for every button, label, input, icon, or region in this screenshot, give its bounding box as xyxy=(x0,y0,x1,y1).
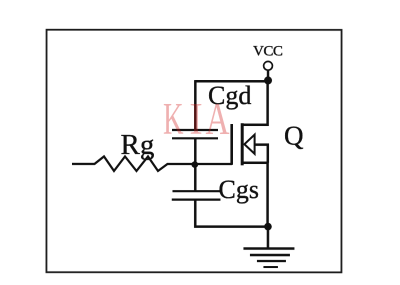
wire top horizontal xyxy=(195,80,268,83)
wire Cgd lower vertical xyxy=(194,138,197,165)
channel bar xyxy=(241,123,244,165)
wire VCC stub xyxy=(267,71,269,82)
transistor Q (N-MOSFET) xyxy=(232,80,268,226)
wire Cgd upper vertical xyxy=(194,80,197,130)
svg-text:Cgs: Cgs xyxy=(218,175,258,204)
node gate junction xyxy=(191,161,198,168)
wire ground stem xyxy=(267,227,270,249)
gate bar xyxy=(230,124,233,165)
body arrow xyxy=(244,135,254,154)
VCC terminal circle xyxy=(264,61,273,70)
svg-text:KIA: KIA xyxy=(163,94,230,144)
svg-text:Rg: Rg xyxy=(120,129,154,161)
ground symbol xyxy=(243,249,294,268)
capacitor Cgs xyxy=(172,191,221,199)
svg-text:Q: Q xyxy=(284,121,304,151)
border frame xyxy=(46,30,341,273)
node source junction xyxy=(264,223,272,231)
wire Cgs upper vertical xyxy=(194,165,197,191)
resistor Rg xyxy=(72,156,232,171)
body wire xyxy=(255,145,268,163)
node junction top (drain node) xyxy=(264,76,272,84)
drain lead xyxy=(244,80,268,124)
wire Cgs bottom L to source node xyxy=(195,200,268,227)
capacitor Cgd xyxy=(172,130,218,138)
source lead xyxy=(243,163,267,227)
svg-text:VCC: VCC xyxy=(253,43,283,59)
